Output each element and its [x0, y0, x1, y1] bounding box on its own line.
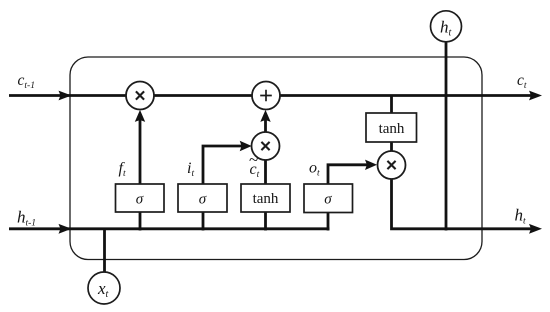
svg-text:σ: σ	[136, 192, 144, 208]
svg-text:tanh: tanh	[379, 121, 405, 137]
svg-text:σ: σ	[324, 192, 332, 208]
svg-text:~: ~	[249, 150, 258, 169]
svg-text:tanh: tanh	[253, 191, 279, 207]
svg-text:σ: σ	[199, 192, 207, 208]
